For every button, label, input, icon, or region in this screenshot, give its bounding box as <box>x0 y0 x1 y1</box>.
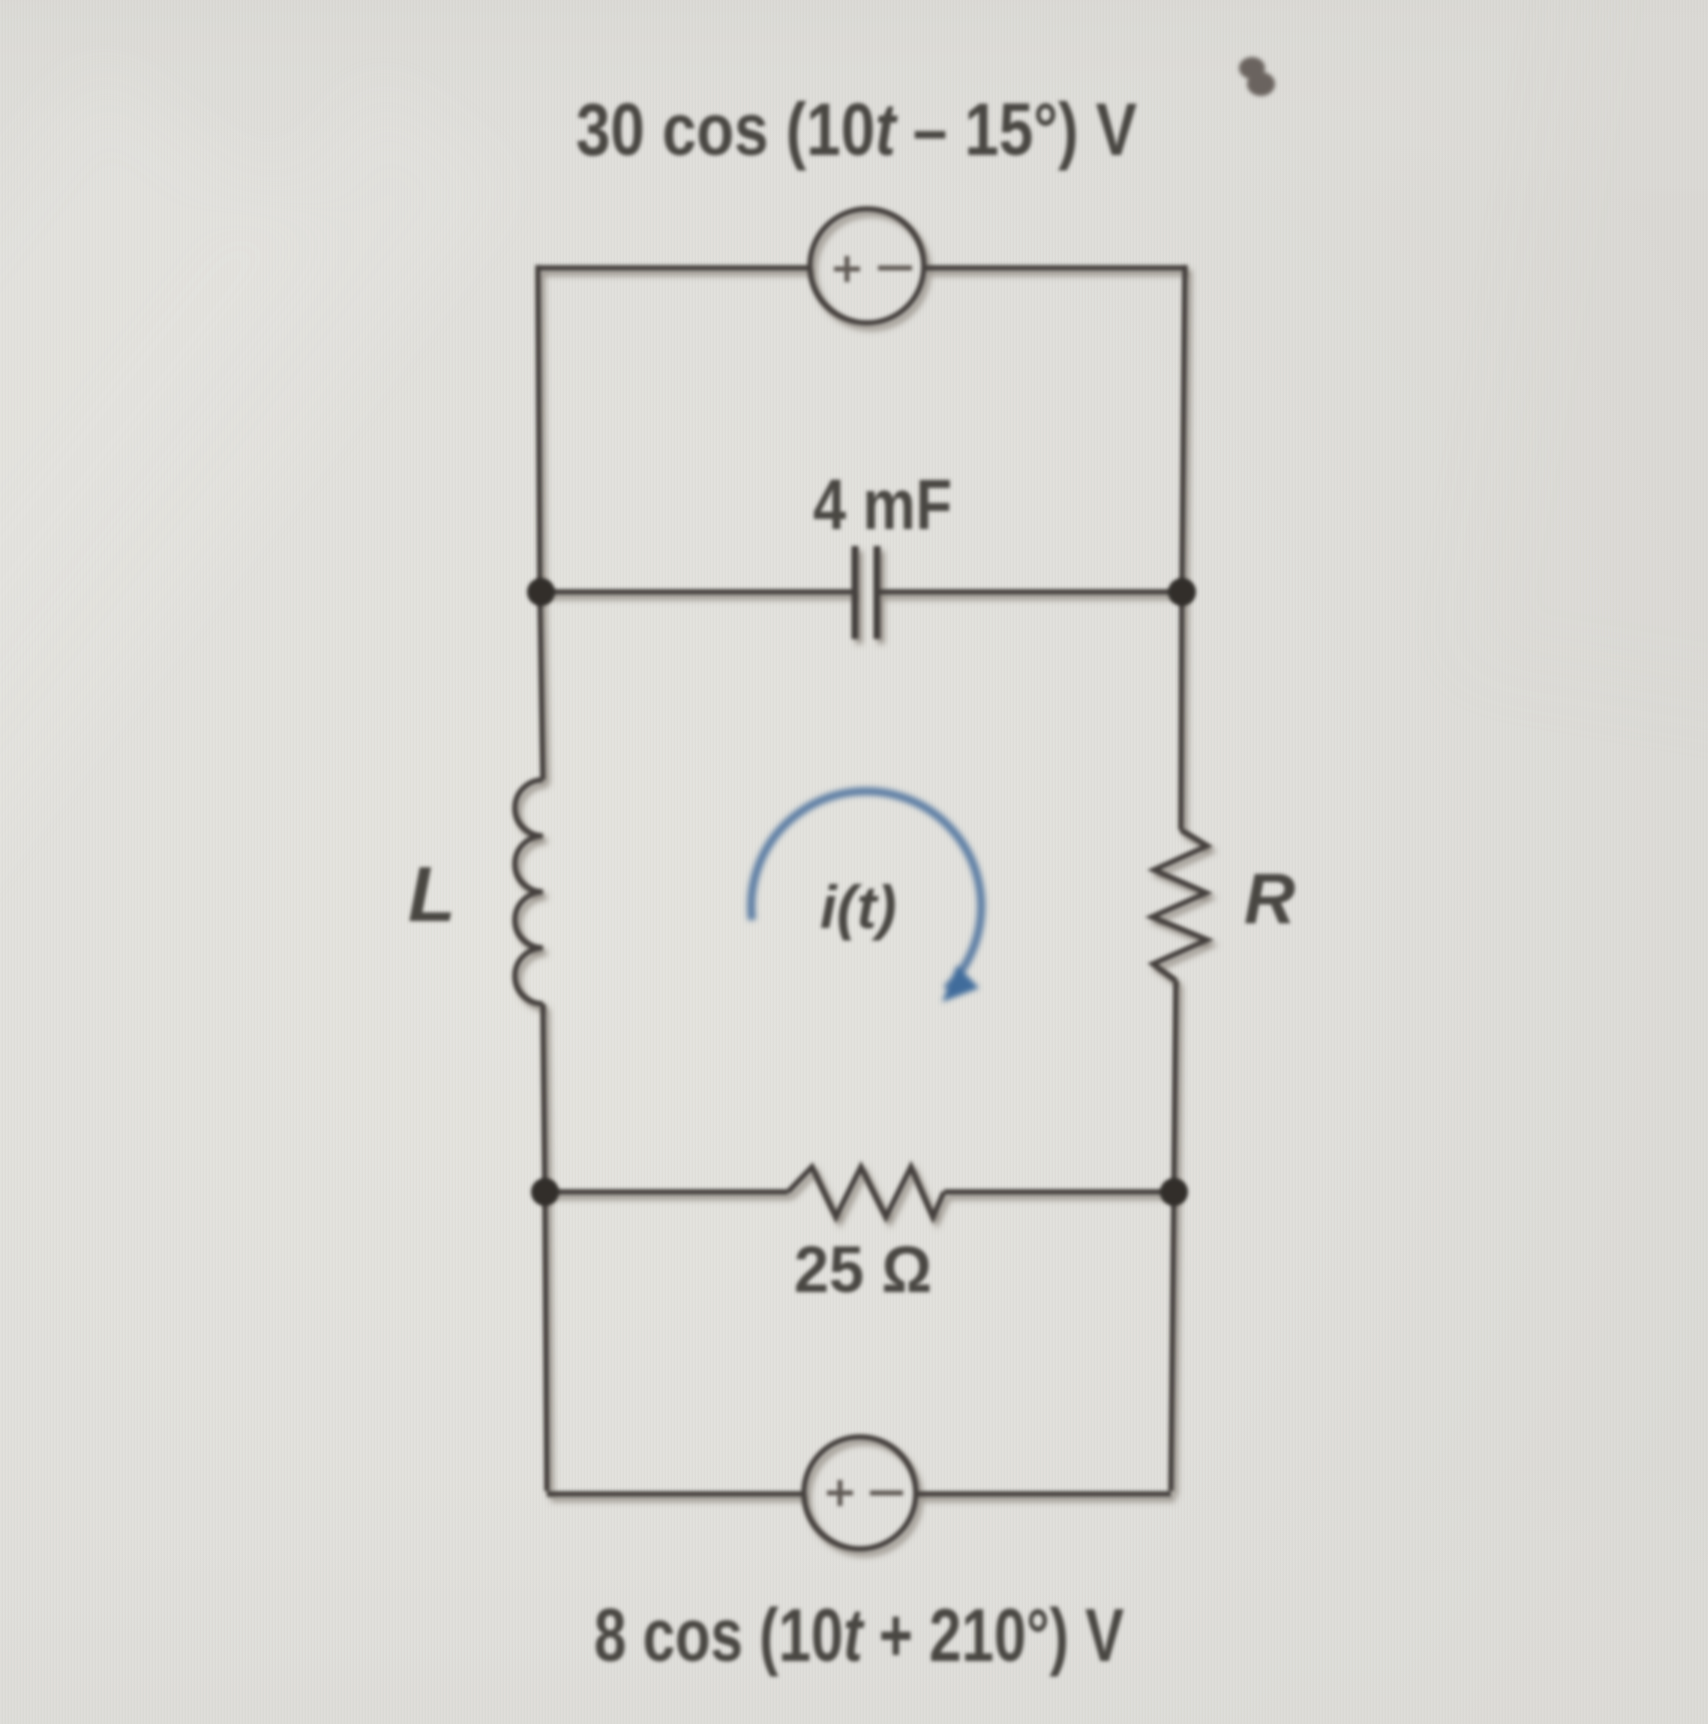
svg-text:25 Ω: 25 Ω <box>794 1232 932 1306</box>
svg-text:8 cos (10t + 210°) V: 8 cos (10t + 210°) V <box>594 1593 1124 1677</box>
svg-text:R: R <box>1244 860 1295 939</box>
svg-text:30 cos (10t – 15°) V: 30 cos (10t – 15°) V <box>576 88 1137 171</box>
svg-text:4 mF: 4 mF <box>813 466 952 545</box>
svg-text:i(t): i(t) <box>820 874 897 941</box>
svg-text:L: L <box>408 850 456 938</box>
